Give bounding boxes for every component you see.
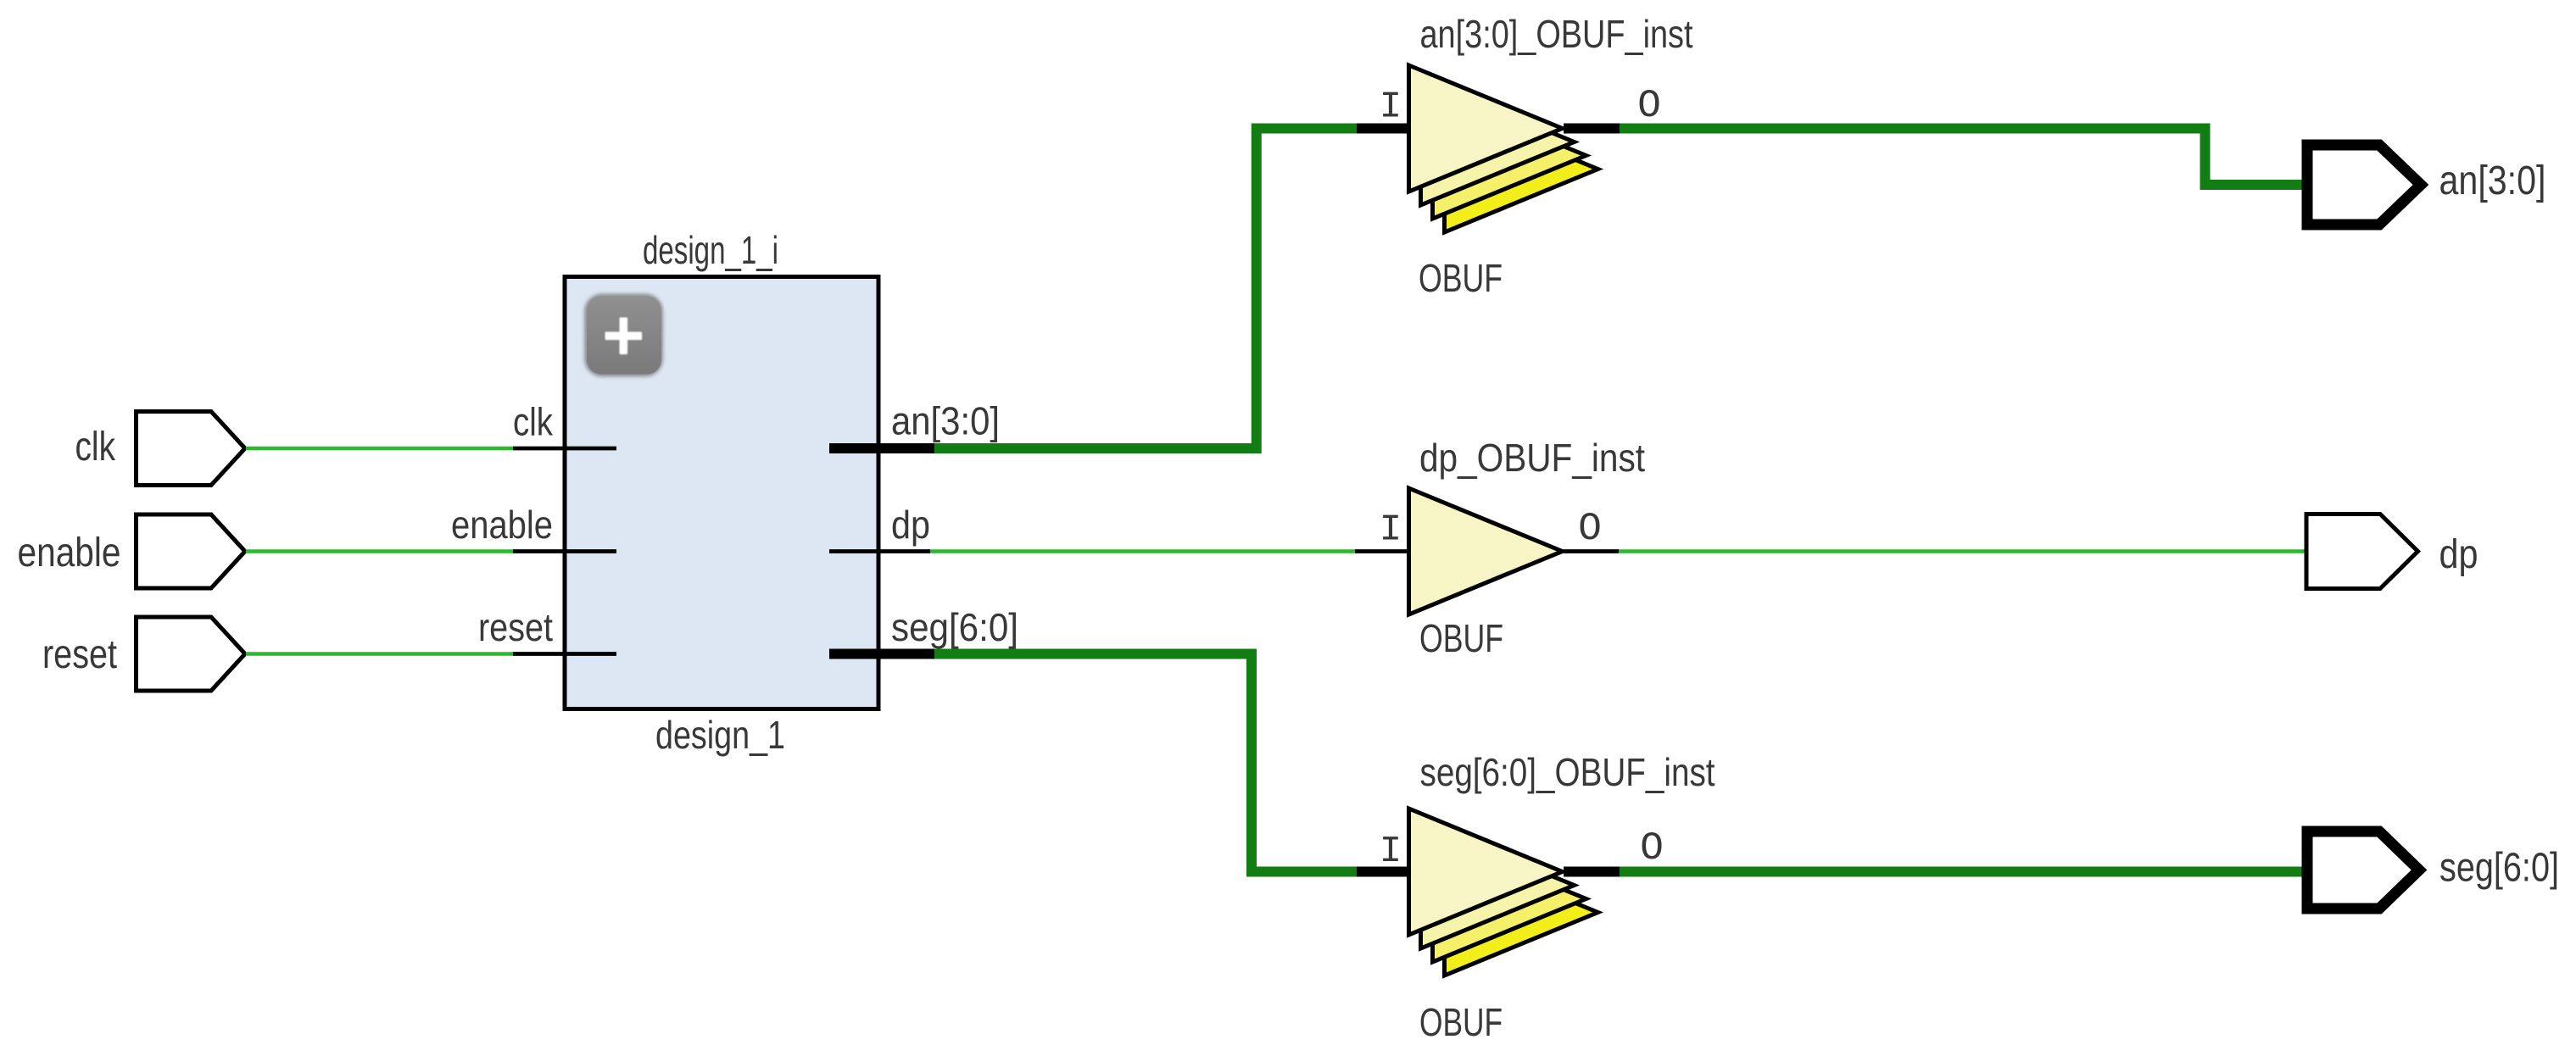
svg-text:an[3:0]: an[3:0] bbox=[891, 399, 1000, 443]
svg-text:dp: dp bbox=[2439, 532, 2478, 577]
svg-text:O: O bbox=[1637, 84, 1661, 128]
buffer seg[6:0]_OBUF_inst bbox=[1357, 809, 1620, 976]
buffer an[3:0]_OBUF_inst bbox=[1357, 65, 1620, 232]
svg-text:enable: enable bbox=[451, 503, 553, 547]
wire an bus (block to OBUF) bbox=[934, 129, 1357, 449]
svg-text:I: I bbox=[1380, 86, 1402, 129]
block design_1_i bbox=[565, 277, 878, 709]
svg-text:clk: clk bbox=[75, 425, 116, 470]
pin stub clk bbox=[513, 447, 616, 451]
svg-text:reset: reset bbox=[42, 632, 117, 677]
svg-text:an[3:0]: an[3:0] bbox=[2439, 158, 2546, 203]
svg-text:design_1: design_1 bbox=[655, 713, 785, 757]
svg-text:OBUF: OBUF bbox=[1419, 256, 1503, 300]
svg-text:dp: dp bbox=[891, 503, 930, 547]
buffer dp_OBUF_inst bbox=[1355, 488, 1619, 614]
input port enable bbox=[137, 514, 246, 588]
wire clk net bbox=[246, 447, 513, 451]
wire seg bus (OBUF to port) bbox=[1620, 867, 2303, 877]
svg-text:seg[6:0]: seg[6:0] bbox=[2439, 846, 2559, 891]
pin stub an[3:0] bbox=[829, 443, 934, 453]
svg-text:seg[6:0]: seg[6:0] bbox=[891, 605, 1018, 649]
output port dp bbox=[2306, 514, 2418, 589]
input port reset bbox=[137, 617, 246, 691]
svg-text:reset: reset bbox=[478, 605, 553, 649]
svg-text:I: I bbox=[1380, 831, 1402, 873]
svg-text:design_1_i: design_1_i bbox=[643, 228, 778, 272]
pin stub seg[6:0] bbox=[829, 649, 934, 659]
output port seg[6:0] bbox=[2307, 831, 2419, 909]
svg-text:seg[6:0]_OBUF_inst: seg[6:0]_OBUF_inst bbox=[1420, 750, 1715, 794]
pin stub enable bbox=[513, 549, 616, 553]
svg-text:clk: clk bbox=[513, 400, 554, 444]
pin stub reset bbox=[513, 652, 616, 656]
svg-text:I: I bbox=[1380, 509, 1402, 552]
wire enable net bbox=[246, 549, 513, 553]
svg-text:OBUF: OBUF bbox=[1419, 616, 1503, 660]
svg-text:OBUF: OBUF bbox=[1419, 1000, 1503, 1044]
pin stub dp bbox=[829, 549, 930, 553]
svg-text:O: O bbox=[1640, 826, 1664, 870]
expand button bbox=[584, 294, 663, 377]
svg-text:dp_OBUF_inst: dp_OBUF_inst bbox=[1419, 436, 1645, 480]
svg-text:O: O bbox=[1578, 507, 1602, 551]
wire dp net (block to OBUF) bbox=[930, 549, 1356, 553]
svg-text:an[3:0]_OBUF_inst: an[3:0]_OBUF_inst bbox=[1420, 12, 1693, 56]
wire reset net bbox=[246, 652, 513, 656]
input port clk bbox=[137, 412, 246, 486]
wire dp net (OBUF to port) bbox=[1619, 549, 2306, 553]
svg-text:enable: enable bbox=[18, 531, 121, 575]
output port an[3:0] bbox=[2307, 145, 2421, 225]
wire seg bus (block to OBUF) bbox=[934, 654, 1357, 872]
wire an bus (OBUF to port) bbox=[1620, 129, 2303, 186]
